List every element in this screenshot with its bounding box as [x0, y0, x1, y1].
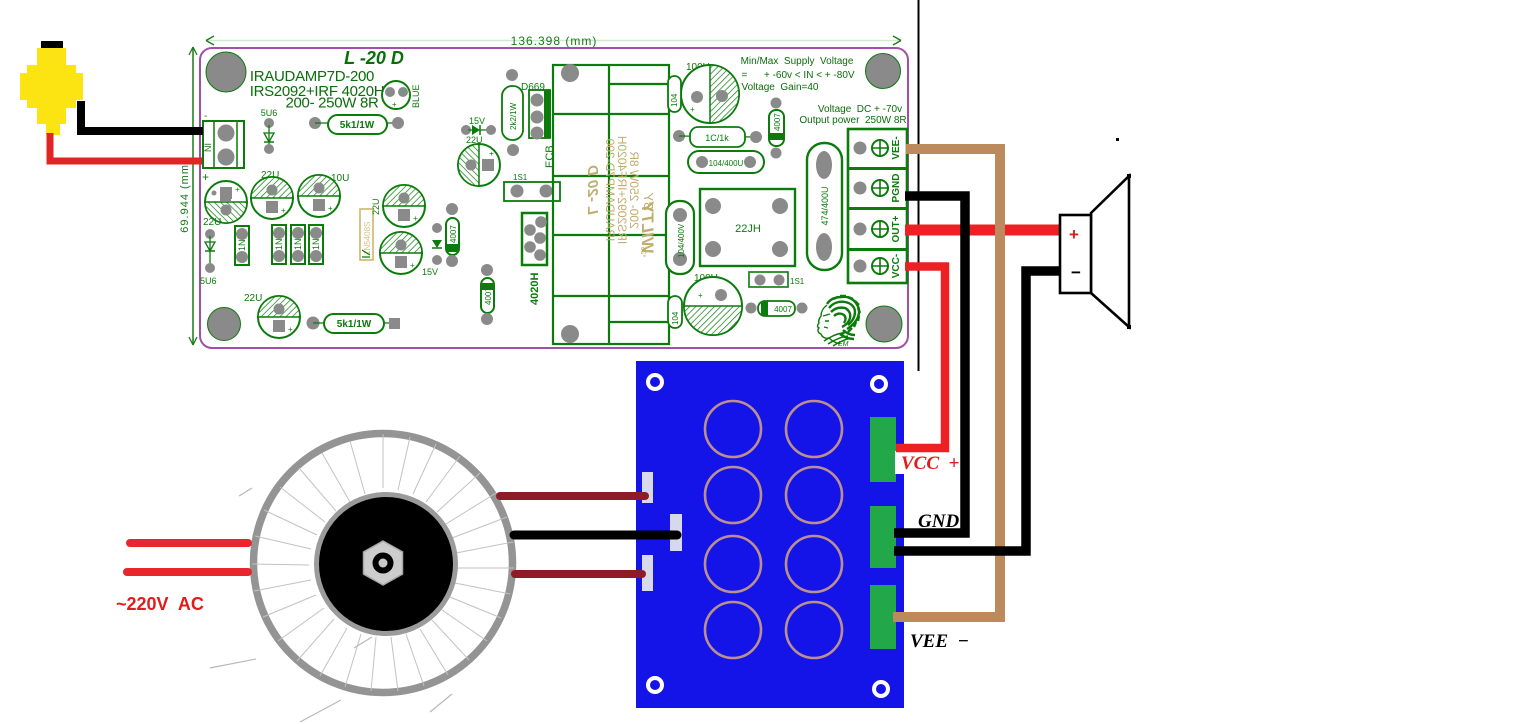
svg-text:+: +	[202, 170, 209, 184]
label VCC white backing	[895, 451, 947, 474]
speaker driver	[1060, 174, 1131, 329]
capacitor 104 bottom	[668, 296, 682, 328]
capacitor ring 6	[786, 536, 842, 592]
capacitor C1 22U	[203, 181, 247, 228]
label GND	[918, 511, 959, 532]
wire secondary 1 dark red	[500, 492, 645, 500]
capacitor 104/400U	[688, 151, 764, 173]
diode 4007 bottom	[746, 301, 808, 316]
svg-text:22U: 22U	[244, 293, 262, 304]
diode ZD1 5U6 top	[261, 108, 278, 154]
svg-text:104: 104	[671, 311, 680, 325]
input terminal NI	[202, 111, 244, 184]
output terminal block	[848, 129, 907, 283]
PSU hole bottom-right	[874, 682, 888, 696]
diode 4007 second	[481, 264, 494, 325]
stray vertical line	[918, 0, 920, 371]
svg-text:104/400V: 104/400V	[677, 223, 686, 258]
title L-20D	[344, 48, 404, 68]
resistor 1N block 3	[291, 225, 305, 264]
svg-text:1N: 1N	[293, 238, 303, 250]
note min/max supply voltage	[741, 56, 855, 93]
sketch artifacts	[210, 488, 452, 722]
svg-text:15V: 15V	[469, 116, 485, 126]
svg-text:L -20 D: L -20 D	[584, 165, 601, 215]
capacitor ring 7	[705, 602, 761, 658]
resistor 1S1 left	[504, 173, 560, 201]
svg-text:Voltage Gain=40: Voltage Gain=40	[741, 82, 818, 93]
terminal OUT+	[854, 215, 903, 242]
svg-text:= + -60v < IN < + -80V: = + -60v < IN < + -80V	[741, 70, 854, 81]
mounting hole bottom-left	[208, 308, 241, 341]
svg-text:5U6: 5U6	[200, 276, 217, 286]
resistor 1S1 right	[749, 272, 805, 287]
RCA plug body	[20, 41, 83, 135]
svg-text:4007: 4007	[773, 113, 782, 131]
svg-text:IRAUDAMP7D-200: IRAUDAMP7D-200	[603, 138, 617, 241]
svg-text:15V: 15V	[422, 267, 438, 277]
svg-text:22U: 22U	[203, 217, 221, 228]
wire secondary center black	[514, 531, 677, 540]
capacitor ring 5	[705, 536, 761, 592]
svg-text:VCC +: VCC +	[901, 453, 959, 474]
svg-text:1N: 1N	[274, 238, 284, 250]
svg-text:1N: 1N	[311, 238, 321, 250]
svg-text:200- 250W 8R: 200- 250W 8R	[285, 95, 379, 112]
svg-text:5U6: 5U6	[261, 108, 278, 118]
toroidal transformer body	[254, 434, 513, 693]
wire AC neutral red	[127, 568, 248, 576]
svg-text:+: +	[690, 105, 695, 114]
inductor 22JH	[700, 189, 795, 266]
svg-text:IRS2092+IRF4020H: IRS2092+IRF4020H	[615, 136, 629, 244]
rectifier PSU board	[636, 361, 904, 708]
title 200-250W 8R	[285, 95, 379, 112]
transformer nut	[364, 541, 403, 585]
capacitor C4 22U	[383, 185, 425, 227]
PSU hole top-right	[872, 377, 886, 391]
svg-text:OUT+: OUT+	[891, 215, 902, 242]
wire VEE tan	[893, 149, 1000, 617]
svg-text:VCC-: VCC-	[891, 254, 902, 278]
capacitor C5	[380, 232, 438, 277]
svg-text:−: −	[1071, 263, 1081, 282]
capacitor ring 8	[786, 602, 842, 658]
wire AC live red	[130, 539, 248, 547]
lady signature EM	[838, 341, 849, 348]
wire VCC red	[896, 267, 945, 449]
svg-text:GND: GND	[918, 511, 959, 532]
capacitor ring 2	[786, 401, 842, 457]
stray dot	[1116, 138, 1119, 141]
svg-text:22U: 22U	[371, 198, 381, 215]
wire RCA ground red	[50, 133, 202, 161]
diode D3	[432, 223, 442, 265]
svg-text:1C/1k: 1C/1k	[705, 133, 729, 143]
diode ZD2 5U6 bottom	[200, 229, 217, 286]
svg-text:Voltage DC + -70v: Voltage DC + -70v	[818, 104, 902, 115]
terminal PGND	[854, 174, 903, 203]
svg-text:1S1: 1S1	[790, 277, 805, 286]
label VCC+	[901, 453, 959, 474]
PSU hole bottom-left	[648, 678, 662, 692]
transformer core	[317, 495, 456, 634]
mounting hole top-right	[866, 54, 901, 89]
dimension line 69.944 mm	[179, 47, 197, 345]
svg-text:4007: 4007	[484, 287, 493, 305]
transistor ECB	[529, 90, 556, 168]
svg-text:1N: 1N	[237, 239, 247, 251]
svg-text:L -20 D: L -20 D	[344, 48, 404, 68]
capacitor 104 top	[668, 76, 681, 112]
PSU input pad 3	[642, 555, 653, 591]
PSU terminal VEE	[870, 585, 896, 649]
svg-text:+: +	[1069, 225, 1079, 244]
svg-text:4007: 4007	[774, 305, 792, 314]
wire RCA signal black	[81, 101, 203, 131]
svg-text:474/400U: 474/400U	[820, 186, 830, 225]
diode D4 15V	[461, 116, 496, 145]
resistor tan 1N5408	[360, 198, 381, 260]
svg-text:Min/Max Supply Voltage: Min/Max Supply Voltage	[741, 56, 854, 67]
resistor R2 5k1/1W bottom	[307, 314, 401, 333]
footprint pad top	[561, 64, 579, 82]
capacitor C3 10U	[298, 173, 349, 217]
svg-text:1N5408S: 1N5408S	[363, 222, 372, 255]
svg-text:BY: BY	[641, 192, 656, 211]
mounting hole top-left	[206, 52, 246, 92]
resistor 1N block 1	[235, 226, 249, 265]
resistor 1C/1k	[673, 127, 762, 147]
transformer footprint	[553, 65, 669, 344]
svg-text:VEE −: VEE −	[910, 631, 969, 652]
PSU terminal VCC+	[870, 417, 896, 482]
svg-text:136.398 (mm): 136.398 (mm)	[511, 34, 598, 48]
resistor 1N block 2	[272, 225, 286, 264]
PSU input pad 2	[670, 514, 682, 551]
svg-text:Output power 250W 8R: Output power 250W 8R	[799, 115, 906, 126]
capacitor C7 22U right	[458, 144, 500, 186]
diode 4007 upper right	[769, 98, 784, 159]
svg-text:104: 104	[670, 93, 679, 107]
svg-text:VEE-: VEE-	[891, 136, 902, 159]
title IRAUDAMP7D-200	[250, 68, 374, 85]
wire PGND black	[894, 196, 965, 533]
svg-text:EM: EM	[838, 341, 849, 348]
svg-text:5k1/1W: 5k1/1W	[340, 120, 375, 131]
mirrored tan silkscreen text	[584, 136, 657, 257]
label 220V AC	[116, 594, 204, 614]
wire speaker negative black	[894, 271, 1060, 551]
label VEE-	[910, 631, 969, 652]
silkscreen lady face art	[818, 305, 853, 346]
mounting hole bottom-right	[866, 306, 902, 342]
svg-text:22JH: 22JH	[735, 223, 761, 235]
svg-text:*25: *25	[639, 247, 646, 258]
PSU input pad 1	[642, 472, 653, 503]
svg-text:+: +	[698, 291, 703, 300]
terminal VCC-	[854, 254, 903, 278]
svg-text:2k2/1W: 2k2/1W	[509, 102, 518, 130]
svg-text:~220V AC: ~220V AC	[116, 594, 204, 614]
svg-text:NI: NI	[203, 143, 213, 152]
diode 4007 first	[446, 203, 459, 267]
note voltage DC	[799, 104, 906, 126]
amplifier PCB board outline	[200, 48, 908, 348]
transformer windings	[252, 434, 514, 691]
wire OUT+ red	[905, 225, 1062, 236]
svg-text:BLUE: BLUE	[411, 84, 421, 108]
svg-text:104/400U: 104/400U	[709, 159, 744, 168]
svg-text:5k1/1W: 5k1/1W	[337, 319, 372, 330]
capacitor 104/400V	[666, 201, 694, 274]
svg-text:+: +	[392, 100, 397, 109]
capacitor ring 4	[786, 467, 842, 523]
capacitor C2 22U	[251, 170, 293, 219]
resistor R1 5k1/1W top	[309, 115, 404, 134]
capacitor ring 3	[705, 467, 761, 523]
footprint pad bottom	[561, 325, 579, 343]
capacitor 100U bottom	[684, 273, 742, 335]
PSU terminal GND	[870, 506, 896, 568]
svg-text:4020H: 4020H	[529, 273, 541, 305]
terminal VEE-	[854, 136, 903, 159]
resistor 1N block 4	[309, 225, 323, 264]
svg-text:PGND: PGND	[891, 174, 902, 203]
capacitor 100U top	[681, 62, 739, 123]
diode D669	[502, 69, 545, 156]
wire secondary 2 dark red	[515, 570, 642, 578]
svg-text:4007: 4007	[449, 225, 458, 243]
PSU hole top-left	[648, 375, 662, 389]
title IRS2092+IRF 4020H	[250, 83, 385, 100]
svg-text:ECB: ECB	[544, 145, 556, 168]
dimension line 136.398 mm	[206, 34, 901, 48]
LED D1 blue	[382, 81, 421, 109]
capacitor C6 22U bottom	[244, 293, 300, 338]
svg-text:69.944 (mm): 69.944 (mm)	[179, 159, 191, 232]
transistor 4020H	[522, 213, 547, 305]
capacitor 474/400U	[807, 143, 842, 270]
svg-text:1S1: 1S1	[513, 173, 528, 182]
capacitor ring 1	[705, 401, 761, 457]
svg-text:-: -	[204, 111, 207, 122]
